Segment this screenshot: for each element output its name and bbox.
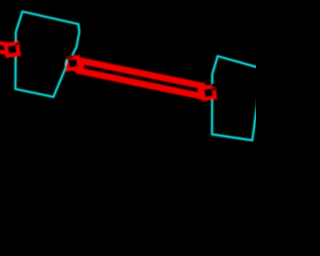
junction fill at pad 2 xyxy=(73,58,84,73)
pad 1 through-hole ring xyxy=(6,43,19,55)
trace glow W2 xyxy=(80,61,202,96)
pad 3 through-hole ring xyxy=(202,87,215,99)
wire trace W1 (stub from left edge to pad 1) xyxy=(0,41,17,55)
component U1 outline glow (left footprint) xyxy=(15,12,79,97)
component U1 outline (left footprint) xyxy=(15,12,79,97)
trace glow W1 xyxy=(0,41,17,55)
pad glow 3 xyxy=(202,87,215,99)
pad 2 through-hole ring xyxy=(67,57,80,69)
wire trace W2 (pad 2 to pad 3) xyxy=(80,61,202,96)
silk edge sliver at pad 2 xyxy=(65,60,67,67)
pad glow 2 xyxy=(67,57,80,69)
junction fill at pad 3 xyxy=(199,84,210,99)
pad copper corner (dim red) at pad 1 xyxy=(15,42,20,46)
mask notch at pad 2 corner xyxy=(63,55,68,63)
pad copper corner (dim red) at pad 3 xyxy=(212,87,217,92)
pad glow 1 xyxy=(6,43,19,55)
component U2 outline glow (right footprint) xyxy=(212,56,262,140)
pad copper corner (dim red) at pad 2 xyxy=(66,54,74,60)
component U2 outline (right footprint) xyxy=(212,56,262,140)
mask notch at pad 3 corner xyxy=(212,83,218,88)
